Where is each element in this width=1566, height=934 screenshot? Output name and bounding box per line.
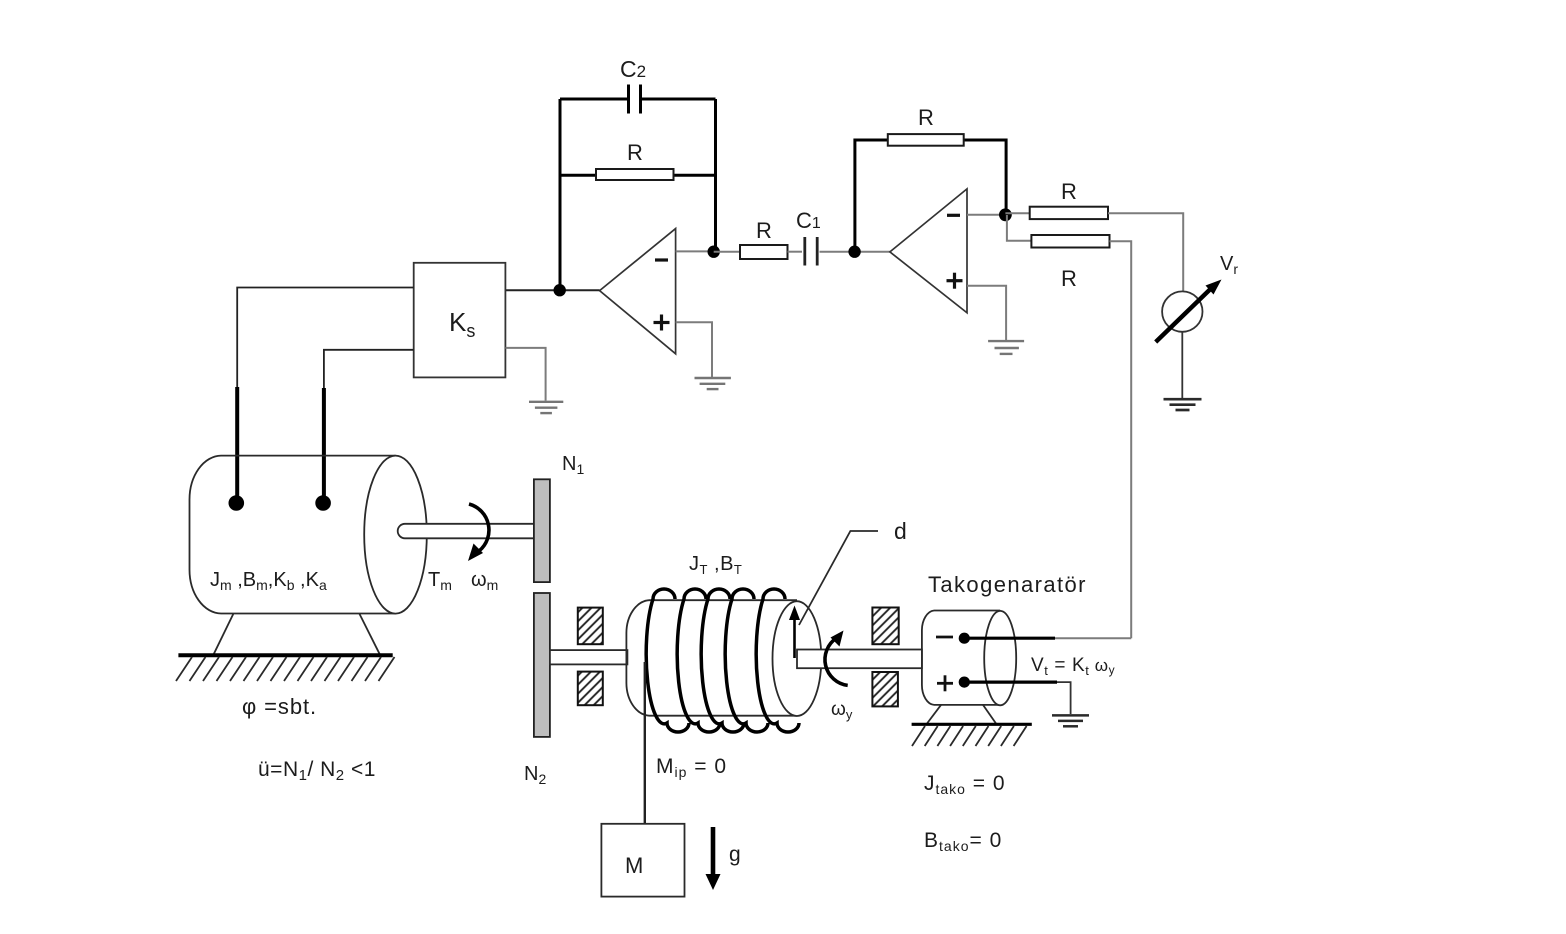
resistor R (to tacho) — [1031, 235, 1109, 291]
tacho minus terminal — [936, 633, 1055, 644]
drum body JT,BT — [626, 600, 821, 716]
wire: top R to meter Vr — [1108, 213, 1183, 291]
wire: tacho plus to ground — [1057, 682, 1071, 714]
wire: motor terminal 2 to Ks — [324, 350, 414, 503]
ground hatching (motor base) — [176, 657, 395, 681]
wire: U1 feedback R branch (thick) — [560, 174, 716, 177]
wire: U2 output down to bottom R — [1007, 215, 1032, 241]
wire: U2 output to top R — [1005, 212, 1029, 214]
svg-text:Vt = Kt ωy: Vt = Kt ωy — [1031, 655, 1115, 678]
svg-text:R: R — [1061, 179, 1077, 204]
svg-text:Tm: Tm — [428, 569, 452, 593]
cord to mass — [644, 662, 646, 824]
tacho plus terminal — [937, 675, 1057, 691]
resistor R (series) — [740, 218, 788, 259]
motor mount — [178, 614, 392, 656]
bearing (right lower) — [872, 672, 898, 706]
wire: U1 output to R series — [714, 251, 740, 253]
gear N1 — [534, 479, 550, 582]
svg-text:N2: N2 — [524, 763, 546, 787]
ground hatching (tacho base) — [912, 726, 1027, 746]
torque arrow (omega m) — [468, 504, 489, 561]
node: motor terminal 1 — [229, 495, 245, 511]
op-amp U1 — [600, 229, 676, 354]
svg-text:φ =sbt.: φ =sbt. — [242, 694, 317, 719]
svg-text:d: d — [894, 518, 907, 544]
resistor R (to meter) — [1030, 179, 1108, 219]
svg-text:Jtako = 0: Jtako = 0 — [924, 772, 1006, 797]
wire: motor terminal 1 to Ks — [237, 288, 414, 504]
resistor R (U1 feedback) — [596, 140, 674, 180]
node: U1 input junction — [554, 284, 566, 296]
mass M — [601, 824, 684, 897]
wire: U2 + input to ground — [967, 286, 1006, 340]
bearing (left upper) — [578, 608, 603, 645]
wire: motor terminal 2 thick lead — [322, 388, 326, 503]
wire: R series to C1 — [788, 251, 803, 253]
wire: U1 + input to ground — [676, 322, 712, 377]
ground (U2 + input) — [988, 341, 1024, 354]
svg-text:C1: C1 — [796, 208, 821, 233]
tachogenerator body — [922, 611, 1016, 706]
svg-text:g: g — [729, 843, 741, 866]
ground (Ks) — [529, 402, 563, 413]
node: U1 output junction — [708, 246, 720, 258]
motor body Jm,Bm,Kb,Ka — [189, 456, 426, 614]
svg-text:Btako= 0: Btako= 0 — [924, 829, 1002, 854]
wire: U2 output — [967, 214, 1005, 216]
tacho mount — [912, 705, 1032, 724]
wire: Ks output to U1 input — [505, 289, 599, 291]
svg-text:ωy: ωy — [831, 699, 853, 722]
wire: U2 feedback loop (thick) — [855, 140, 1006, 252]
svg-text:M: M — [625, 853, 643, 878]
wire: motor terminal 1 thick lead — [235, 387, 239, 503]
meter Vr — [1156, 253, 1239, 342]
gravity arrow g — [706, 827, 741, 890]
svg-text:Mip = 0: Mip = 0 — [656, 755, 727, 780]
svg-text:R: R — [627, 140, 643, 165]
op-amp U2 — [890, 189, 967, 313]
svg-text:C2: C2 — [620, 56, 646, 82]
svg-text:ωm: ωm — [471, 569, 498, 593]
node: U2 input junction — [848, 246, 860, 258]
damper arrow d — [789, 518, 907, 658]
block Ks — [414, 263, 506, 378]
rotation arrow (omega y) — [825, 631, 848, 686]
capacitor C1 — [796, 208, 821, 266]
svg-text:Takogenaratör: Takogenaratör — [928, 572, 1087, 597]
svg-text:Jm ,Bm,Kb ,Ka: Jm ,Bm,Kb ,Ka — [210, 569, 327, 593]
wire: U1 output — [676, 250, 714, 252]
bearing (right upper) — [872, 608, 898, 645]
ground (meter Vr) — [1164, 399, 1202, 410]
motor shaft — [398, 524, 535, 539]
ground (U1 + input) — [695, 378, 731, 389]
bearing (left lower) — [578, 672, 603, 706]
svg-text:JT ,BT: JT ,BT — [689, 553, 742, 577]
resistor R (U2 feedback) — [888, 105, 964, 146]
svg-text:R: R — [1061, 266, 1077, 291]
shaft N2 to drum — [550, 650, 628, 664]
svg-text:R: R — [918, 105, 934, 130]
capacitor C2 — [620, 56, 646, 114]
wire: Ks to ground — [505, 348, 545, 401]
node: motor terminal 2 — [315, 495, 331, 511]
svg-text:R: R — [756, 218, 772, 243]
svg-text:N1: N1 — [562, 453, 584, 477]
wire: meter Vr to ground — [1181, 332, 1183, 399]
wire: U1 feedback loop (thick) — [560, 99, 716, 290]
svg-text:Vr: Vr — [1220, 253, 1238, 277]
svg-text:ü=N1/ N2 <1: ü=N1/ N2 <1 — [258, 758, 376, 784]
wire: tacho minus to long vertical — [1055, 637, 1131, 639]
wire: bottom R to long vertical down to tacho — [1110, 241, 1132, 638]
spring coils — [646, 589, 799, 732]
wire: C1 to U2 input — [820, 251, 890, 253]
ground (tacho plus) — [1052, 715, 1089, 726]
shaft drum to tacho — [797, 650, 922, 669]
node: U2 output junction — [999, 208, 1012, 221]
gear N2 — [534, 593, 550, 737]
